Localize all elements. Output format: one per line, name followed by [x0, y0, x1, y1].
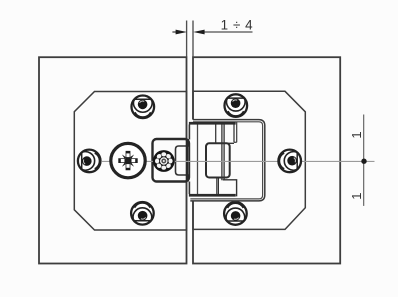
screw right of right plate	[278, 150, 301, 173]
right panel	[193, 57, 340, 263]
tab inner opening	[176, 146, 190, 175]
neck bottom line	[209, 142, 235, 144]
svg-text:1: 1	[349, 193, 364, 200]
tab outline	[153, 139, 190, 182]
top dimension 1-4: extension lines and leader	[172, 21, 252, 57]
clip	[206, 143, 230, 177]
hinge body white fill	[189, 120, 264, 201]
svg-text:1 ÷ 4: 1 ÷ 4	[221, 17, 253, 32]
top dimension left arrowhead	[176, 30, 187, 35]
screw top-left plate	[132, 96, 155, 119]
verticals through clip	[222, 122, 224, 180]
neck right edge	[233, 122, 235, 142]
centerline	[102, 160, 375, 162]
cam adjuster	[111, 143, 145, 177]
neck left edge	[215, 122, 217, 143]
right mounting plate	[193, 91, 305, 229]
hinge body inner offset outline	[190, 122, 262, 199]
hinge body outer outline	[190, 120, 264, 201]
right dimension center dot	[361, 159, 366, 164]
hinge arm tab on left plate	[153, 139, 190, 182]
step below clip	[217, 178, 219, 197]
left mounting plate	[74, 92, 186, 231]
svg-text:1: 1	[349, 131, 364, 138]
left panel	[39, 57, 187, 263]
screw left of left plate	[78, 150, 101, 173]
knuckle caps	[189, 122, 236, 125]
hinge body (cup wing)	[189, 120, 265, 201]
right dimension line	[363, 115, 365, 206]
screw bottom-right plate	[224, 202, 247, 225]
top dimension right arrowhead	[193, 30, 204, 35]
screw bottom-left plate	[131, 202, 154, 225]
star screw	[153, 150, 175, 172]
cup left wall	[197, 125, 199, 195]
screw top-right plate	[225, 94, 248, 117]
tab end cap bar at panel gap	[186, 139, 189, 182]
